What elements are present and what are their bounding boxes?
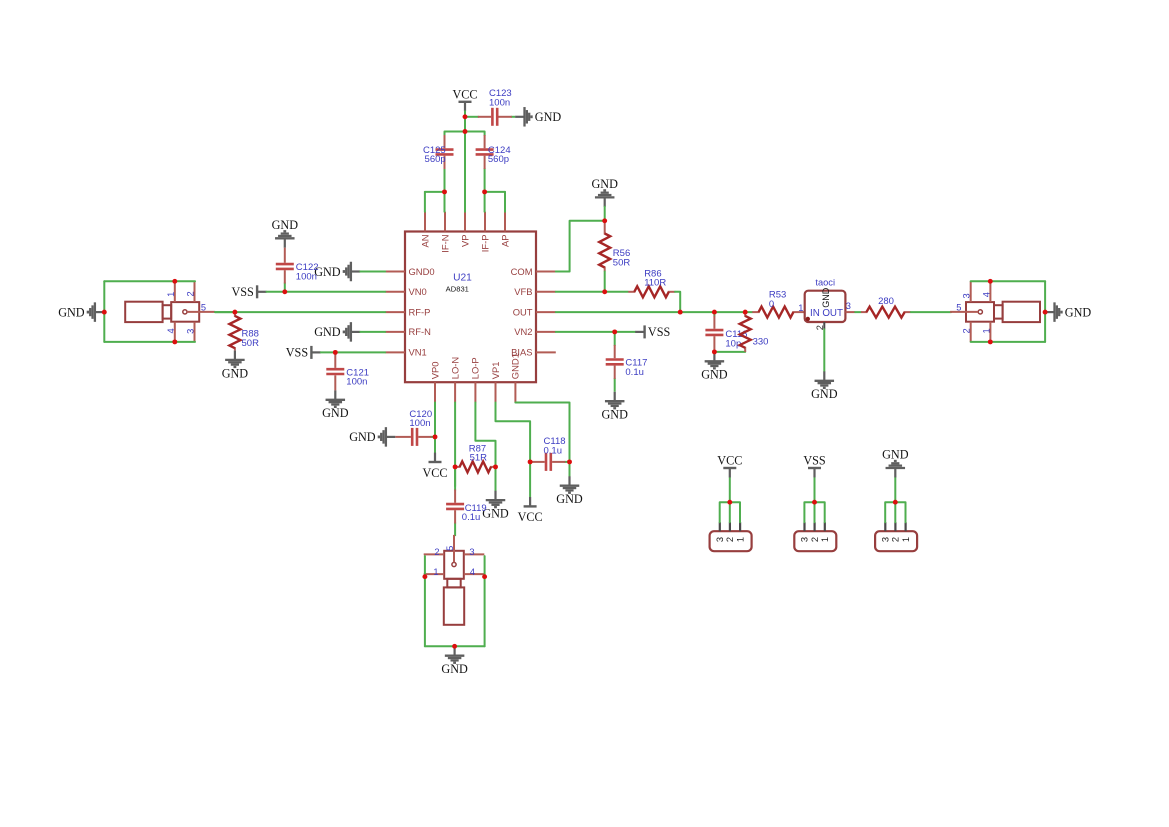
wire GND conn outer pins	[885, 502, 905, 522]
ground at RF-N	[314, 322, 360, 342]
svg-text:IN: IN	[810, 308, 820, 319]
svg-text:GND: GND	[441, 662, 468, 676]
svg-text:GND: GND	[222, 366, 249, 380]
wire taoci to R280	[855, 311, 861, 313]
IC U21 AD831 body	[405, 232, 536, 383]
junction VP0/C120	[433, 434, 438, 439]
svg-text:2: 2	[810, 537, 820, 542]
svg-text:3: 3	[800, 537, 810, 542]
svg-text:2: 2	[962, 328, 972, 333]
svg-text:10p: 10p	[725, 339, 741, 350]
connector left coax	[125, 281, 215, 342]
ground below bottom coax	[441, 646, 468, 676]
power flag VCC below VP0	[422, 453, 447, 480]
svg-text:GND: GND	[58, 305, 85, 319]
power flag VCC above conn	[717, 454, 742, 478]
wire GND to GND0 pin	[360, 271, 385, 273]
capacitor C123	[465, 108, 515, 126]
power flag VSS at VN1	[286, 346, 321, 360]
wire coax pin5 to RF-P	[215, 311, 235, 313]
wire taoci pin2 to ground	[823, 329, 825, 371]
svg-text:5: 5	[201, 303, 206, 313]
wire bottom coax bottom loop	[425, 645, 485, 647]
svg-text:4: 4	[981, 292, 991, 297]
svg-text:RF-P: RF-P	[409, 306, 431, 317]
svg-text:VP1: VP1	[490, 361, 501, 379]
wire COM to R56 node	[556, 221, 605, 272]
wire R86 to OUT	[675, 292, 680, 312]
wire GND to R56 node	[604, 207, 606, 221]
svg-text:51R: 51R	[470, 453, 488, 464]
svg-text:GND: GND	[535, 110, 562, 124]
svg-text:100n: 100n	[346, 377, 367, 388]
capacitor C120	[395, 428, 435, 446]
U21 bottom pins VP0 LO-N LO-P VP1 GND1	[429, 353, 520, 402]
svg-text:3: 3	[469, 547, 474, 557]
junction VN0/C122	[282, 289, 287, 294]
svg-text:VN0: VN0	[409, 286, 427, 297]
svg-text:GND1: GND1	[510, 353, 521, 379]
svg-text:4: 4	[166, 328, 176, 333]
svg-text:taoci: taoci	[815, 278, 835, 288]
filter FL taoci body	[805, 287, 846, 322]
svg-text:COM: COM	[511, 266, 533, 277]
svg-text:100n: 100n	[296, 272, 317, 283]
wire down to IF-N pin	[444, 192, 446, 212]
U21 top pins AN IF-N VP IF-P AP	[419, 212, 510, 253]
ground left of left coax	[58, 302, 104, 322]
ground below R87	[482, 491, 509, 521]
svg-text:3: 3	[846, 301, 851, 311]
wire bottom coax left loop	[424, 556, 426, 646]
svg-text:560p: 560p	[488, 154, 509, 165]
wire VSS to VN0 pin	[267, 291, 386, 293]
svg-text:1: 1	[901, 537, 911, 542]
wire GND conn center riser	[894, 477, 896, 522]
taoci pin3 stub	[845, 311, 855, 313]
svg-text:1: 1	[735, 537, 745, 542]
wire down to AP pin	[504, 192, 506, 212]
wire VCC stem to VP branch	[464, 111, 466, 131]
label C125 560p	[423, 145, 446, 165]
label R86 110R	[644, 268, 666, 288]
svg-text:VN2: VN2	[514, 326, 532, 337]
svg-text:AP: AP	[499, 235, 510, 248]
svg-text:VCC: VCC	[452, 88, 477, 102]
svg-text:1: 1	[981, 328, 991, 333]
junction LO-N/R87	[453, 464, 458, 469]
svg-text:0: 0	[769, 299, 774, 310]
ground below C121	[322, 390, 349, 420]
label R56 50R	[613, 248, 631, 268]
label R87 51R	[469, 443, 487, 463]
power flag VSS at VN2	[635, 325, 670, 339]
ground below C118	[556, 476, 583, 506]
svg-text:VSS: VSS	[286, 346, 309, 360]
wire VP1 jog down	[496, 403, 531, 498]
U21 right pins COM VFB OUT VN2 BIAS	[511, 266, 556, 358]
connector right coax	[950, 281, 1040, 342]
connector VCC 3-pin	[710, 522, 752, 551]
U21 left pins GND0 VN0 RF-P RF-N VN1	[385, 266, 434, 358]
svg-text:AD831: AD831	[446, 284, 469, 293]
wire LO-P jog down	[475, 403, 495, 467]
junction R56 bottom / VFB	[602, 289, 607, 294]
label C119 0.1u	[462, 503, 487, 523]
junction VP1/C118	[528, 459, 533, 464]
resistor 330	[740, 312, 751, 352]
ground below C117	[601, 392, 628, 422]
wire RF-P from connector	[215, 311, 385, 313]
svg-text:VN1: VN1	[409, 347, 427, 358]
svg-text:GND: GND	[314, 325, 341, 339]
svg-text:GND: GND	[272, 218, 299, 232]
wire VSS conn center riser	[814, 477, 816, 522]
wire right coax top loop	[971, 280, 1045, 282]
junction IF-P node	[482, 189, 487, 194]
svg-text:100n: 100n	[489, 98, 510, 109]
svg-text:VSS: VSS	[231, 285, 254, 299]
junction IF-N node	[442, 189, 447, 194]
svg-text:AN: AN	[419, 235, 430, 248]
svg-text:VFB: VFB	[514, 286, 532, 297]
svg-text:VP0: VP0	[429, 361, 440, 379]
wire OUT main	[556, 311, 753, 313]
junction RF-P/R88	[232, 310, 237, 315]
svg-text:50R: 50R	[613, 257, 631, 268]
svg-text:0.1u: 0.1u	[544, 445, 563, 456]
svg-text:3: 3	[715, 537, 725, 542]
resistor 280	[861, 307, 911, 318]
ground left of C120	[349, 427, 395, 447]
junction R56 top	[602, 218, 607, 223]
ground at GND0	[314, 262, 360, 282]
svg-text:GND: GND	[811, 387, 838, 401]
svg-text:OUT: OUT	[513, 306, 533, 317]
junction VSS conn	[812, 500, 817, 505]
resistor R88	[229, 312, 240, 350]
svg-text:3: 3	[185, 329, 195, 334]
svg-text:VSS: VSS	[648, 325, 671, 339]
label C118 0.1u	[544, 436, 566, 456]
wire left coax left loop	[103, 281, 105, 342]
ground above R56	[591, 177, 618, 207]
label R88 50R	[242, 329, 260, 349]
ground right of C123	[515, 107, 561, 127]
svg-text:U21: U21	[453, 273, 472, 284]
resistor R53	[752, 307, 804, 318]
ground right of right coax	[1045, 302, 1091, 322]
wire R56 to VFB	[604, 272, 606, 292]
taoci pin marker	[806, 317, 810, 321]
wire GND1 jog down	[515, 403, 569, 477]
wire VSS to VN1 pin	[321, 351, 385, 353]
svg-text:GND: GND	[556, 492, 583, 506]
svg-text:GND: GND	[821, 287, 831, 308]
svg-text:VCC: VCC	[422, 466, 447, 480]
wire VN2 to VSS	[556, 331, 635, 333]
junction left coax pin4	[172, 339, 177, 344]
svg-text:2: 2	[434, 547, 439, 557]
ground below taoci	[811, 371, 838, 401]
wire left coax bottom loop	[104, 341, 195, 343]
svg-text:IF-P: IF-P	[479, 235, 490, 253]
wire node to AN column	[425, 191, 445, 193]
junction bottom coax pin1	[422, 574, 427, 579]
junction VP branch	[463, 129, 468, 134]
svg-text:1: 1	[166, 292, 176, 297]
svg-text:VCC: VCC	[717, 454, 742, 468]
wire right coax right loop	[1044, 281, 1046, 342]
svg-text:330: 330	[753, 336, 769, 347]
capacitor C121	[326, 352, 344, 390]
wire left coax top loop	[104, 280, 195, 282]
wire VCC conn outer pins	[720, 502, 740, 522]
svg-text:GND: GND	[349, 430, 376, 444]
wire node to AP column	[485, 191, 505, 193]
svg-text:GND: GND	[601, 408, 628, 422]
power flag VCC top	[452, 88, 477, 112]
junction VN2/C117	[612, 329, 617, 334]
svg-text:VCC: VCC	[518, 510, 543, 524]
svg-text:VSS: VSS	[803, 454, 826, 468]
wire VSS conn outer pins	[804, 502, 824, 522]
capacitor C116	[705, 312, 723, 352]
wire VP vertical	[464, 132, 466, 212]
wire VFB to R86	[556, 291, 628, 293]
resistor R87	[455, 461, 495, 472]
svg-text:280: 280	[878, 296, 894, 307]
junction OUT/C116	[712, 310, 717, 315]
label C123 100n	[489, 88, 512, 108]
wire down to IF-P pin	[484, 192, 486, 212]
svg-text:GND0: GND0	[409, 266, 435, 277]
svg-text:2: 2	[891, 537, 901, 542]
capacitor C125	[436, 132, 454, 192]
svg-text:GND: GND	[1065, 305, 1092, 319]
svg-text:1: 1	[820, 537, 830, 542]
svg-text:LO-N: LO-N	[449, 357, 460, 379]
connector VSS 3-pin	[794, 522, 836, 551]
svg-text:GND: GND	[591, 177, 618, 191]
resistor R86	[628, 286, 675, 297]
capacitor C118	[530, 453, 569, 471]
label C117 0.1u	[625, 358, 647, 378]
svg-text:5: 5	[445, 546, 455, 551]
svg-text:GND: GND	[882, 448, 909, 462]
wire R87 to ground	[495, 467, 497, 491]
label C124 560p	[488, 145, 511, 165]
junction right coax pin4	[988, 279, 993, 284]
svg-text:560p: 560p	[425, 154, 446, 165]
svg-text:50R: 50R	[242, 338, 260, 349]
svg-text:4: 4	[470, 567, 475, 577]
junction GND1/C118	[567, 459, 572, 464]
svg-text:5: 5	[956, 303, 961, 313]
svg-text:110R: 110R	[644, 278, 666, 289]
ground above conn	[882, 448, 909, 478]
wire VP0 down	[434, 403, 436, 453]
svg-text:LO-P: LO-P	[470, 357, 481, 379]
label C120 100n	[409, 409, 432, 429]
label C121 100n	[346, 367, 369, 387]
svg-text:2: 2	[185, 291, 195, 296]
junction R87 right	[493, 464, 498, 469]
junction left coax ground	[102, 310, 107, 315]
svg-text:RF-N: RF-N	[409, 326, 431, 337]
power flag VSS at VN0	[231, 285, 266, 299]
junction right coax ground	[1043, 310, 1048, 315]
label C116 10p	[725, 329, 747, 349]
ground below C116	[701, 352, 728, 382]
power flag VCC below C118	[518, 497, 543, 524]
capacitor C122	[276, 248, 294, 292]
wire VCC conn center riser	[729, 477, 731, 522]
wire C125-C124 branch	[445, 131, 485, 133]
ground above C122	[272, 218, 299, 248]
junction VN1/C121	[333, 350, 338, 355]
ground below R88	[222, 351, 249, 381]
svg-text:IF-N: IF-N	[439, 235, 450, 253]
svg-text:1: 1	[433, 567, 438, 577]
wire LO-N down	[454, 403, 456, 487]
svg-text:2: 2	[725, 537, 735, 542]
capacitor C117	[606, 332, 624, 392]
wire right coax bottom loop	[971, 341, 1045, 343]
junction right coax pin1	[988, 339, 993, 344]
wire R280 to right coax	[911, 311, 951, 313]
svg-text:0.1u: 0.1u	[625, 367, 644, 378]
junction VCC/C123	[463, 114, 468, 119]
svg-text:GND: GND	[701, 368, 728, 382]
junction GND conn	[893, 500, 898, 505]
junction bottom coax pin4	[482, 574, 487, 579]
wire down to AN pin	[424, 192, 426, 212]
junction bottom coax ground	[452, 644, 457, 649]
junction left coax pin1	[172, 279, 177, 284]
resistor R56	[599, 221, 610, 272]
wire C116 to R330 bottom	[714, 351, 745, 353]
svg-text:100n: 100n	[409, 418, 430, 429]
taoci pin numbers 1 2 3	[798, 301, 851, 330]
svg-text:0.1u: 0.1u	[462, 512, 481, 523]
junction OUT/R330	[743, 310, 748, 315]
junction VCC conn	[727, 500, 732, 505]
svg-text:GND: GND	[322, 406, 349, 420]
svg-text:1: 1	[798, 303, 803, 313]
capacitor C119	[446, 467, 464, 536]
connector GND 3-pin	[875, 522, 917, 551]
label C122 100n	[296, 262, 319, 282]
taoci pin2 stub	[823, 322, 825, 329]
connector bottom coax	[424, 535, 485, 625]
junction C116 bottom	[712, 349, 717, 354]
svg-text:3: 3	[881, 537, 891, 542]
capacitor C124	[476, 132, 494, 192]
svg-text:OUT: OUT	[822, 308, 843, 319]
svg-text:3: 3	[962, 293, 972, 298]
wire GND to RF-N pin	[360, 331, 385, 333]
junction OUT/R86	[678, 310, 683, 315]
power flag VSS above conn	[803, 454, 826, 478]
label R53 0	[769, 290, 786, 310]
svg-text:VP: VP	[459, 235, 470, 248]
wire bottom coax right loop	[484, 556, 486, 646]
